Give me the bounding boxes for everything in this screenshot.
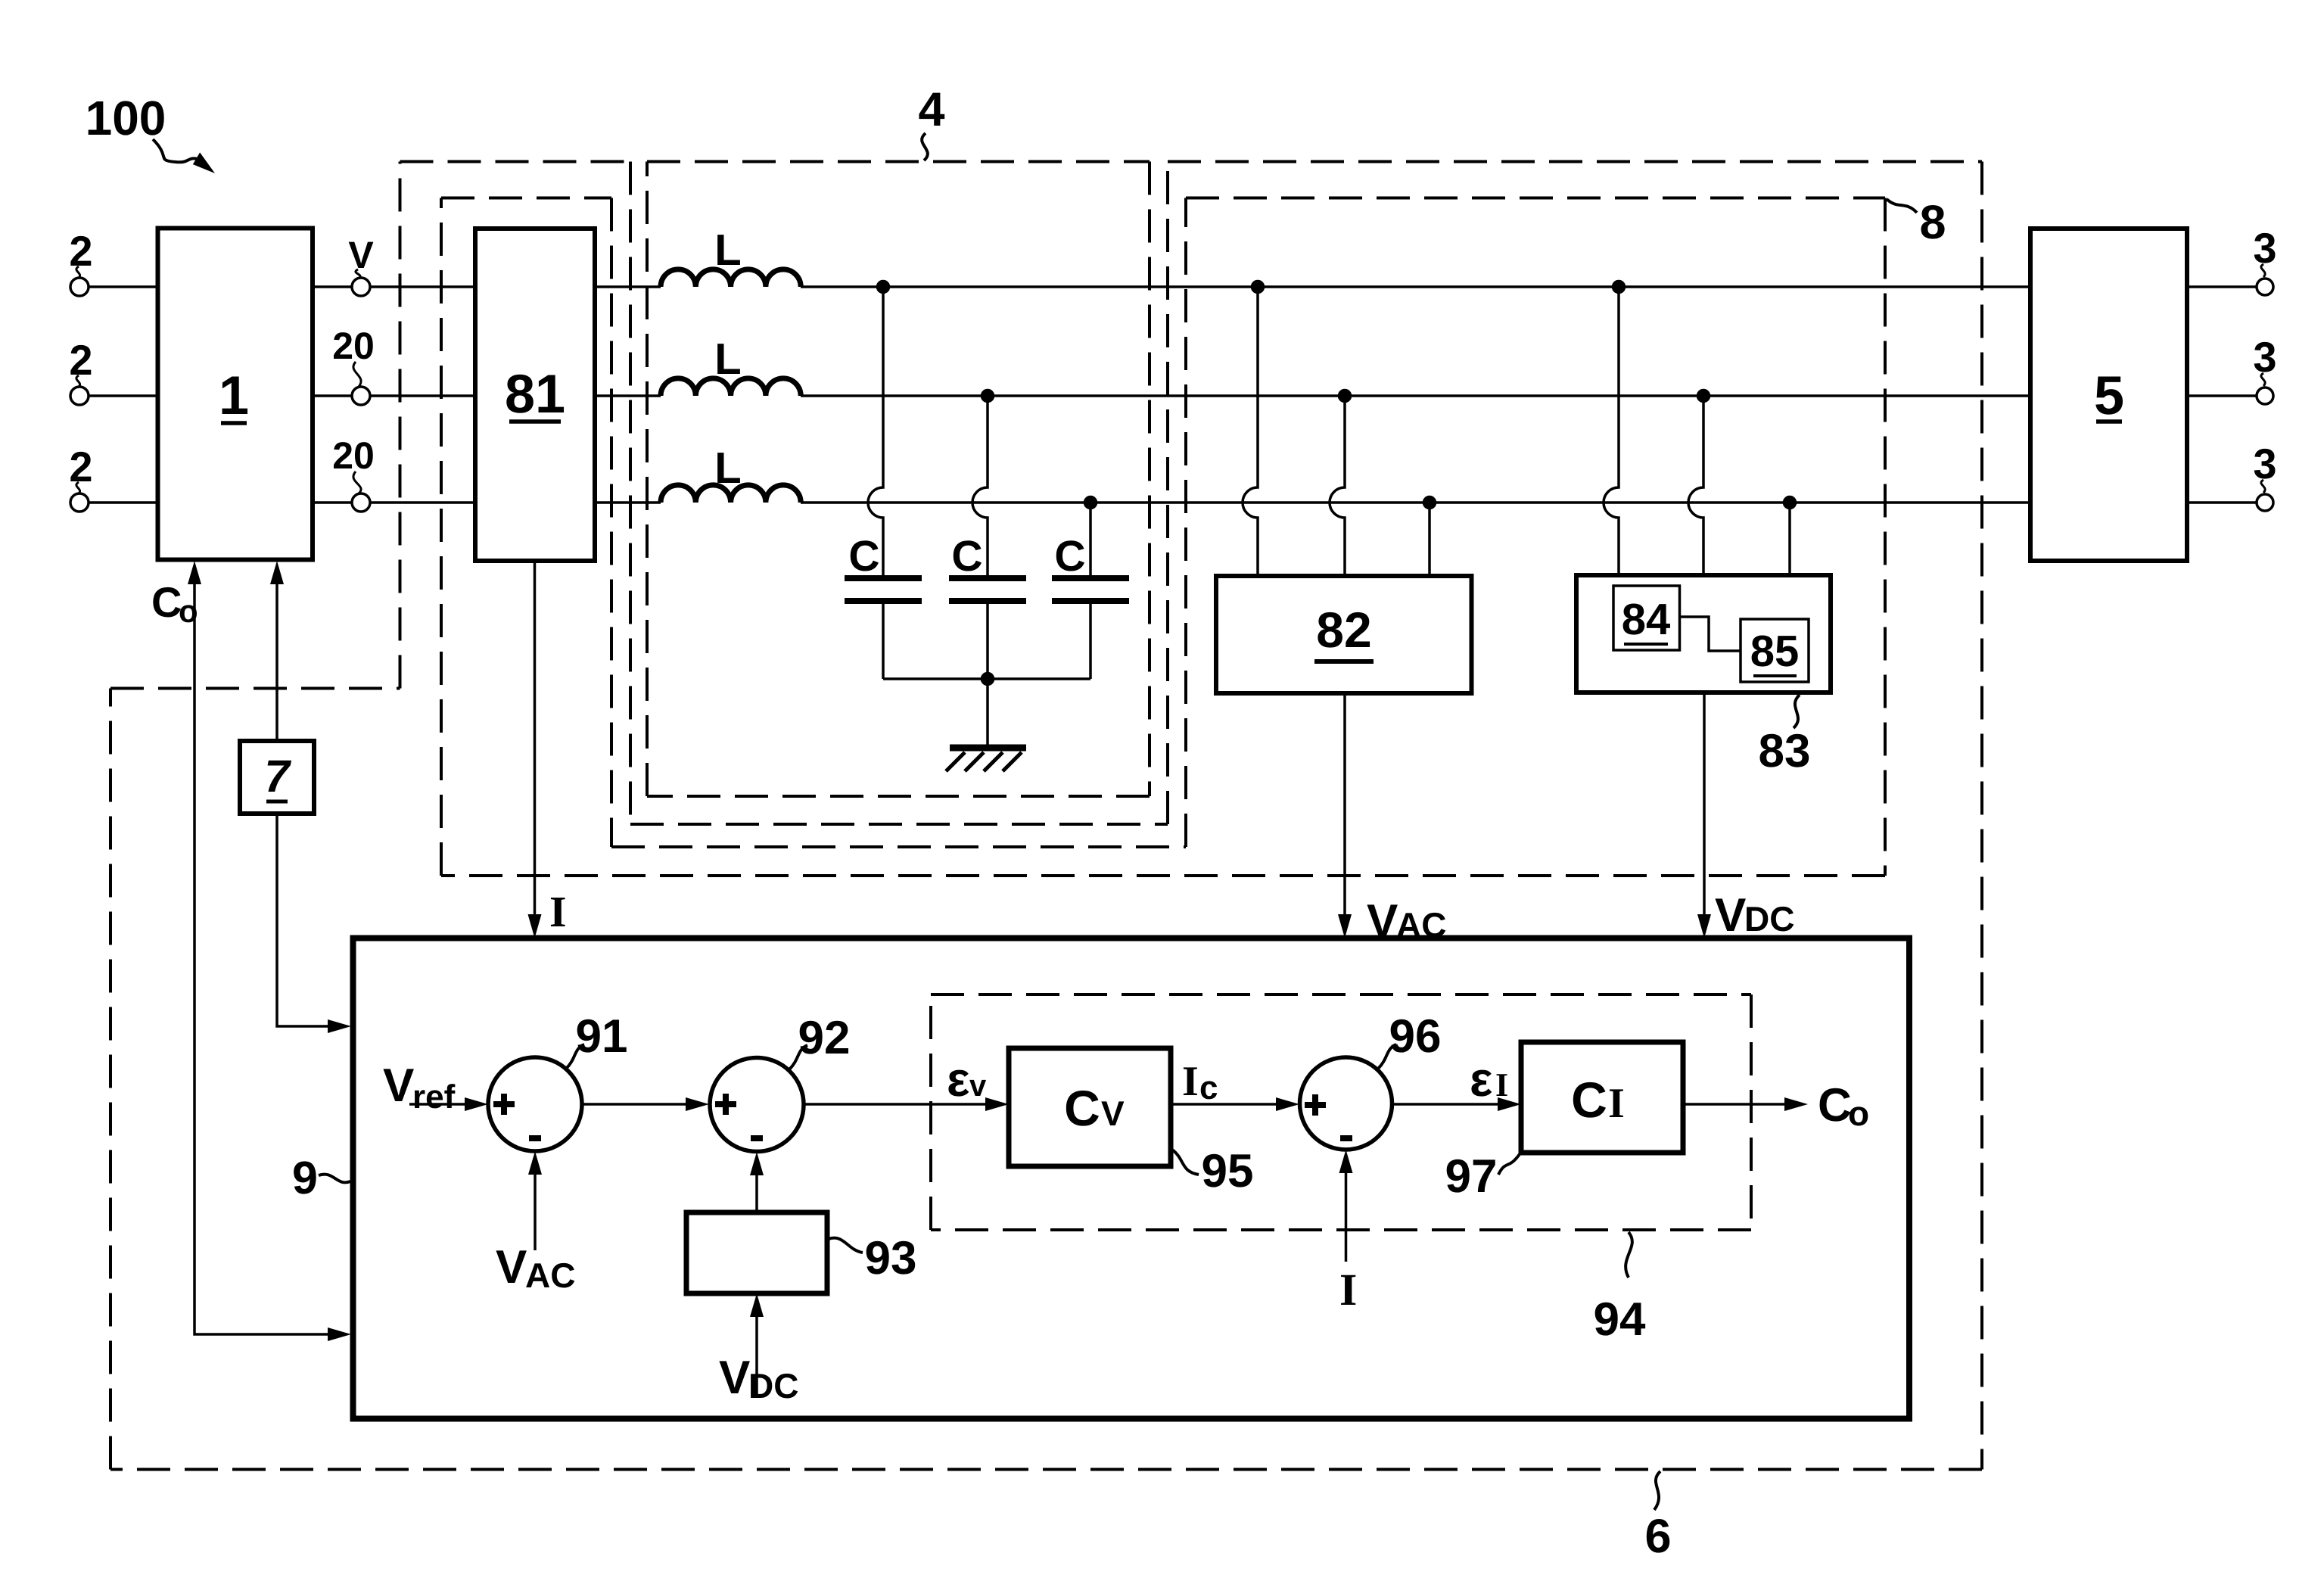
svg-text:L: L xyxy=(714,226,741,275)
svg-text:DC: DC xyxy=(1744,899,1794,938)
wire phase a block1 to 81 xyxy=(313,285,475,288)
svg-text:94: 94 xyxy=(1594,1293,1646,1346)
computer box 9 xyxy=(353,938,1910,1419)
svg-text:V: V xyxy=(1101,1094,1125,1133)
svg-text:3: 3 xyxy=(2253,224,2276,272)
svg-text:C: C xyxy=(1064,1080,1100,1136)
svg-text:v: v xyxy=(969,1069,987,1103)
wire C3 drop xyxy=(1089,503,1092,575)
node on phase c for 82 xyxy=(1424,497,1436,509)
wire 83 drop a with hop xyxy=(1604,287,1619,575)
measuring unit boundary 8 (dashed polygon) xyxy=(441,198,1885,876)
wire 83 drop c xyxy=(1788,503,1791,575)
terminal 20 on phase c xyxy=(352,493,370,512)
inductor L phase a xyxy=(661,269,801,287)
squiggle arrow from 100 xyxy=(153,139,198,162)
wire phase b 81 to 5 xyxy=(595,394,2030,397)
VDC signal wire 83 to computer xyxy=(1703,693,1706,933)
current sensor block 81 xyxy=(475,229,595,561)
svg-text:5: 5 xyxy=(2094,366,2124,426)
inductor L phase b xyxy=(661,378,801,396)
wires capacitors to common bus xyxy=(883,604,1090,679)
ground xyxy=(950,745,1026,752)
DC voltage sensor block 83 xyxy=(1576,575,1831,693)
output terminal 3 middle xyxy=(2187,394,2256,397)
label Co output xyxy=(1818,1079,1869,1133)
svg-text:DC: DC xyxy=(748,1366,798,1405)
inner block 85 xyxy=(1741,619,1809,682)
svg-text:o: o xyxy=(1848,1094,1869,1133)
label 4 xyxy=(918,83,944,136)
svg-text:c: c xyxy=(1199,1069,1218,1106)
summer 96 xyxy=(1300,1057,1392,1150)
svg-text:V: V xyxy=(1715,889,1746,942)
dashed box 94 xyxy=(931,994,1751,1230)
wire C1 drop with hop over phase c xyxy=(868,287,883,575)
capacitor C2 xyxy=(949,578,1026,601)
svg-text:2: 2 xyxy=(69,227,92,275)
svg-text:93: 93 xyxy=(865,1232,917,1284)
I signal wire 81 to computer xyxy=(534,561,537,933)
svg-text:I: I xyxy=(1608,1080,1625,1127)
wire phase c 81 to 5 xyxy=(595,501,2030,504)
input terminal 2 bottom xyxy=(70,493,89,512)
capacitor C3 xyxy=(1052,578,1129,601)
VAC input to summer 91 xyxy=(534,1157,537,1250)
label Co xyxy=(151,578,198,629)
wire Cv to summer 96 with label Ic xyxy=(1171,1103,1278,1106)
svg-text:92: 92 xyxy=(798,1012,851,1064)
wire Vref to summer 91 xyxy=(409,1103,467,1106)
svg-text:3: 3 xyxy=(2253,333,2276,381)
node on phase b for 82 xyxy=(1339,391,1351,402)
svg-text:91: 91 xyxy=(576,1010,628,1063)
wire C2 drop with hop over phase c xyxy=(972,396,988,575)
label 8 xyxy=(1919,196,1946,249)
label 83 xyxy=(1759,725,1811,777)
svg-text:2: 2 xyxy=(69,443,92,490)
wire 83 drop b with hop xyxy=(1688,396,1703,575)
svg-text:83: 83 xyxy=(1759,725,1811,777)
terminal 20 on phase b xyxy=(352,387,370,405)
filter box 4 (dashed) xyxy=(647,162,1150,797)
svg-text:95: 95 xyxy=(1202,1145,1254,1197)
wire 93 to summer 92 xyxy=(755,1158,758,1212)
svg-text:97: 97 xyxy=(1445,1150,1498,1203)
node on phase c for C3 xyxy=(1085,497,1097,509)
label 94 xyxy=(1594,1293,1646,1346)
capacitor C1 xyxy=(845,578,922,601)
input terminal 2 top xyxy=(70,278,89,296)
svg-text:AC: AC xyxy=(525,1256,575,1295)
svg-text:7: 7 xyxy=(264,751,291,801)
AC voltage sensor block 82 xyxy=(1216,576,1472,693)
output terminal 3 bottom xyxy=(2187,501,2256,504)
voltage corrector block Cv 95 xyxy=(1009,1048,1171,1166)
wire phase a 81 to 5 xyxy=(595,285,2030,288)
svg-text:V: V xyxy=(348,234,374,276)
VAC signal wire 82 to computer xyxy=(1343,693,1346,933)
svg-text:6: 6 xyxy=(1644,1510,1671,1563)
svg-text:85: 85 xyxy=(1750,627,1800,676)
wire summer 91 to summer 92 xyxy=(582,1103,688,1106)
svg-text:V: V xyxy=(719,1352,750,1404)
svg-text:1: 1 xyxy=(219,366,249,426)
node common bus xyxy=(982,674,994,685)
svg-text:3: 3 xyxy=(2253,440,2276,487)
label 6 xyxy=(1644,1510,1671,1563)
summer 92 xyxy=(710,1058,804,1152)
svg-text:20: 20 xyxy=(332,434,375,477)
label 9 xyxy=(292,1152,318,1203)
svg-text:8: 8 xyxy=(1919,196,1946,249)
label Vref xyxy=(383,1060,456,1116)
I input to summer 96 xyxy=(1345,1156,1348,1262)
svg-text:96: 96 xyxy=(1389,1010,1442,1063)
control device boundary 6 (dashed polygon) xyxy=(110,162,1982,1470)
svg-text:I: I xyxy=(1339,1265,1357,1315)
label 100 xyxy=(86,91,166,145)
wire phase c block1 to 81 xyxy=(313,501,475,504)
svg-text:100: 100 xyxy=(86,91,166,145)
svg-text:I: I xyxy=(1182,1058,1199,1105)
node on phase c for 83 xyxy=(1784,497,1796,509)
svg-text:C: C xyxy=(1571,1072,1607,1128)
wire 84 to 85 xyxy=(1680,617,1741,651)
svg-text:C: C xyxy=(151,578,182,626)
node on phase a for 82 xyxy=(1252,282,1264,293)
svg-text:o: o xyxy=(179,593,198,629)
Co feedback wire xyxy=(194,567,331,1334)
wire summer 96 to Ci with label epsilon-I xyxy=(1392,1103,1501,1106)
wire 7 to block 1 xyxy=(275,567,278,741)
node on phase a for C1 xyxy=(878,282,889,293)
current corrector block Ci 97 xyxy=(1521,1042,1683,1153)
svg-text:82: 82 xyxy=(1316,602,1371,658)
svg-text:C: C xyxy=(1054,532,1085,580)
svg-text:C: C xyxy=(951,532,982,580)
svg-text:20: 20 xyxy=(332,325,375,367)
label 95 xyxy=(1202,1145,1254,1197)
svg-text:4: 4 xyxy=(918,83,944,136)
svg-text:9: 9 xyxy=(292,1152,318,1203)
label epsilon-v xyxy=(947,1052,987,1106)
inductor L phase c xyxy=(661,485,801,503)
svg-text:L: L xyxy=(714,335,741,384)
inverter block 5 xyxy=(2030,229,2187,561)
converter block 1 xyxy=(158,229,313,560)
wire bus to ground xyxy=(986,679,989,746)
node V terminal on phase a xyxy=(352,278,370,296)
node on phase b for 83 xyxy=(1698,391,1710,402)
wire 82 drop c xyxy=(1428,503,1431,576)
driver block 7 xyxy=(240,741,314,814)
inner block 84 xyxy=(1613,586,1680,650)
svg-text:C: C xyxy=(848,532,879,580)
svg-text:I: I xyxy=(1495,1066,1508,1103)
label 97 xyxy=(1445,1150,1498,1203)
svg-text:I: I xyxy=(549,887,567,936)
svg-text:84: 84 xyxy=(1622,595,1671,644)
svg-text:ε: ε xyxy=(947,1052,969,1106)
wire phase b block1 to 81 xyxy=(313,394,475,397)
svg-text:81: 81 xyxy=(505,364,565,425)
VDC input to block 93 xyxy=(755,1299,758,1398)
label 93 xyxy=(865,1232,917,1284)
node on phase b for C2 xyxy=(982,391,994,402)
svg-text:C: C xyxy=(1818,1079,1852,1131)
wire summer 92 to Cv xyxy=(804,1103,988,1106)
wire 82 drop a with hop xyxy=(1243,287,1258,576)
output terminal 3 top xyxy=(2187,285,2256,288)
svg-text:ref: ref xyxy=(412,1078,456,1116)
input terminal 2 middle xyxy=(70,387,89,405)
output wire Co xyxy=(1683,1103,1787,1106)
wire 7 to computer xyxy=(277,814,331,1026)
svg-text:L: L xyxy=(714,444,741,493)
wire 82 drop b with hop xyxy=(1330,396,1345,576)
svg-text:2: 2 xyxy=(69,336,92,384)
block 93 xyxy=(686,1212,827,1293)
svg-text:ε: ε xyxy=(1470,1052,1492,1106)
node on phase a for 83 xyxy=(1613,282,1625,293)
summer 91 xyxy=(488,1057,582,1151)
svg-text:V: V xyxy=(496,1241,527,1293)
